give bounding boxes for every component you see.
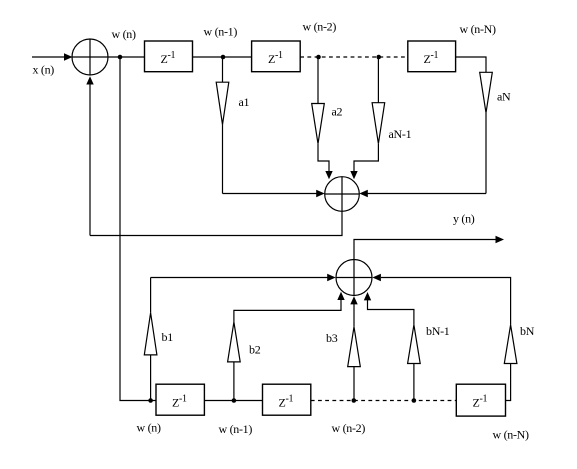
svg-text:Z-1: Z-1 (268, 50, 283, 66)
gain a2 (312, 57, 333, 179)
svg-text:Z-1: Z-1 (473, 394, 488, 410)
gain b2 (228, 292, 345, 401)
gain aN-1 (350, 57, 384, 179)
gain aN (456, 57, 493, 194)
gain b3 (348, 296, 361, 400)
svg-text:y (n): y (n) (453, 212, 475, 226)
node w(n) (118, 55, 123, 60)
node bottom w(n) (148, 398, 153, 403)
wire aN to adder S2 (359, 190, 486, 198)
node bottom w(n-2) (352, 398, 357, 403)
svg-text:bN: bN (520, 324, 535, 338)
svg-text:w (n-N): w (n-N) (493, 428, 530, 442)
delay Z5 (263, 384, 311, 415)
svg-text:w (n-2): w (n-2) (332, 421, 366, 435)
node w(n-1) (221, 55, 226, 60)
adder S2 (325, 177, 360, 212)
svg-text:x (n): x (n) (33, 63, 55, 77)
svg-text:a2: a2 (332, 105, 343, 119)
wire Z1 to Z2 (193, 56, 252, 58)
gain bN (372, 274, 517, 401)
svg-text:w (n-1): w (n-1) (204, 25, 238, 39)
delay Z1 (145, 41, 193, 72)
wire dashed Z2 to Z3 (300, 56, 408, 58)
adder S3 (336, 260, 372, 296)
delay Z3 (408, 41, 456, 72)
svg-text:w (n): w (n) (137, 421, 161, 435)
delay Z2 (252, 41, 301, 72)
node w(n-2) (316, 55, 321, 60)
svg-text:w (n-N): w (n-N) (460, 22, 497, 36)
wire Z4 to Z5 (204, 400, 262, 402)
svg-text:Z-1: Z-1 (161, 50, 176, 66)
gain b1 (144, 278, 157, 401)
wire feedback up into S1 (86, 76, 93, 235)
wire input x(n) (32, 56, 65, 58)
wire w(n) down to bottom delay line (120, 57, 156, 401)
wire S3 output y(n) (354, 236, 504, 260)
svg-text:Z-1: Z-1 (424, 50, 439, 66)
wire dashed Z5 to Z6 (311, 400, 457, 402)
node aN-1 tap (376, 55, 381, 60)
svg-text:aN-1: aN-1 (389, 127, 412, 141)
svg-text:b3: b3 (326, 331, 338, 345)
wire b1 to adder S3 (151, 274, 336, 282)
wire S1 to Z1 (108, 56, 145, 58)
svg-text:Z-1: Z-1 (172, 394, 187, 410)
svg-text:w (n): w (n) (112, 27, 136, 41)
svg-text:b1: b1 (162, 330, 174, 344)
svg-text:w (n-2): w (n-2) (303, 20, 337, 34)
gain bN-1 (364, 292, 420, 401)
svg-text:Z-1: Z-1 (279, 394, 294, 410)
svg-text:a1: a1 (239, 95, 250, 109)
wire S2 output feedback (90, 211, 342, 235)
gain a1 (216, 57, 229, 194)
svg-text:bN-1: bN-1 (426, 324, 450, 338)
node bN-1 tap (412, 398, 417, 403)
svg-text:b2: b2 (249, 343, 261, 357)
delay Z6 (456, 384, 505, 416)
delay Z4 (156, 384, 204, 415)
node bottom w(n-1) (232, 398, 237, 403)
arrow into adder S1 (64, 53, 73, 61)
adder S1 (72, 39, 108, 75)
svg-text:w (n-1): w (n-1) (219, 422, 253, 436)
svg-text:aN: aN (497, 90, 511, 104)
wire a1 to adder S2 (223, 190, 325, 198)
